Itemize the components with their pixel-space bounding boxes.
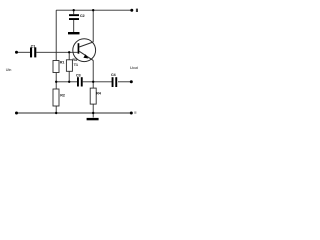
capacitor C1 plates: [30, 47, 36, 57]
svg-text:R1: R1: [60, 61, 65, 65]
wire ground rail: [17, 112, 132, 114]
wire C2 bottom plate to ground bar: [73, 20, 75, 32]
svg-text:Uout: Uout: [130, 66, 138, 70]
node R3 bottom junction: [68, 81, 70, 83]
wire node line C3 to emitter column: [83, 81, 112, 83]
wire top supply rail: [56, 9, 132, 11]
node emitter junction: [92, 81, 94, 83]
svg-text:C2: C2: [80, 14, 85, 18]
resistor R4 emitter: [90, 88, 96, 104]
terminal input: [15, 51, 18, 54]
svg-text:R3: R3: [72, 58, 77, 62]
wire input terminal to C1: [17, 51, 31, 53]
wire R3 bottom to node line: [68, 71, 70, 82]
capacitor C2 plates: [69, 14, 79, 20]
wire node line left segment (R1/R2 node to C3): [56, 81, 77, 83]
ground symbol bottom: [87, 118, 99, 120]
svg-text:C1: C1: [31, 44, 36, 48]
resistor R1: [53, 61, 59, 73]
capacitor C4 plates: [112, 77, 118, 87]
wire R3 stub base wire to box: [68, 52, 70, 60]
svg-text:T1: T1: [74, 63, 78, 67]
wire emitter column down to Re: [92, 60, 94, 88]
wire left divider column upper (rail corner down across base wire to R1): [55, 10, 57, 60]
terminal ground right: [130, 112, 133, 115]
svg-text:C3: C3: [76, 74, 81, 78]
terminal supply right: [130, 9, 133, 12]
terminal output: [130, 80, 133, 83]
wire output C4 to terminal: [118, 81, 131, 83]
node Re ground junction: [92, 112, 94, 114]
wire Re bottom to ground rail: [92, 104, 94, 113]
node base R3 junction: [68, 51, 70, 53]
svg-text:R4: R4: [96, 91, 101, 95]
node C2 rail junction: [73, 9, 75, 11]
wire base from C1 to transistor base bar: [36, 51, 77, 53]
resistor R2: [53, 89, 59, 106]
svg-text:Uin: Uin: [6, 68, 12, 72]
terminal ground left: [15, 112, 18, 115]
wire collector column (rail to transistor): [92, 10, 94, 42]
wire R2 bottom to ground rail: [55, 106, 57, 113]
svg-text:R2: R2: [60, 93, 65, 97]
ground bar under C2: [68, 32, 80, 34]
label supply plus glyph: [136, 9, 138, 12]
wire ground symbol stub: [92, 113, 94, 118]
node divider junction: [55, 81, 57, 83]
wire C2 stub from rail to top plate: [73, 10, 75, 14]
svg-text:C4: C4: [111, 73, 116, 77]
label ground right glyph: [134, 111, 136, 113]
capacitor C3 plates: [77, 77, 83, 86]
transistor T1: [73, 39, 96, 62]
resistor R3: [66, 60, 72, 72]
node R2 ground junction: [55, 112, 57, 114]
node collector rail junction: [92, 9, 94, 11]
wire R1 bottom to node line: [55, 73, 57, 90]
